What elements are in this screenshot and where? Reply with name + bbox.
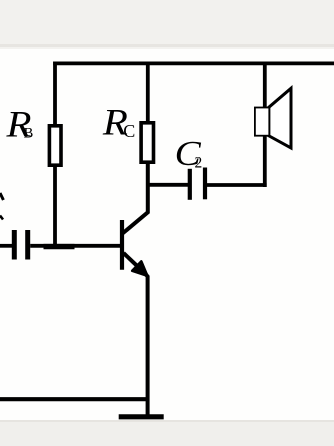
wire bottom rail [0,397,150,401]
wire input stub (left edge to C1) [0,244,13,248]
transistor Q1 emitter lead [124,253,144,272]
capacitor C1 right plate [25,230,30,260]
svg-text:B: B [24,126,34,142]
wire top rail [53,62,334,66]
transistor Q1 collector lead [123,164,148,234]
junction base node [44,244,75,249]
bottom grey band [0,420,334,446]
svg-text:C: C [123,121,135,141]
svg-text:2: 2 [195,154,203,171]
label RB [5,105,33,146]
ground [119,414,164,419]
transistor Q1 base bar [120,220,124,270]
label RC [102,102,135,143]
wire RC top (rail to RC) [146,62,150,124]
capacitor C1 left plate [12,230,17,260]
wire C2 to speaker branch [207,183,267,187]
speaker LS horn [269,88,291,148]
label C2 [175,135,203,174]
label fragment at left edge [0,193,3,220]
wire left vertical upper (Vcc to RB) [53,62,57,128]
resistor RB [49,126,61,165]
wire collector node to C2 [146,183,189,187]
wire base (C1 to transistor base) [30,244,123,248]
wire left vertical lower (RB to base node) [53,165,57,248]
top grey band [0,0,334,45]
wire right vertical (rail through speaker to C2 node) [263,62,267,188]
wire emitter vertical (to ground) [145,273,148,415]
capacitor C2 right plate [203,168,207,200]
speaker LS body [255,108,269,136]
transistor Q1 emitter arrowhead [132,261,147,275]
resistor RC [141,123,153,162]
capacitor C2 left plate [188,169,192,200]
